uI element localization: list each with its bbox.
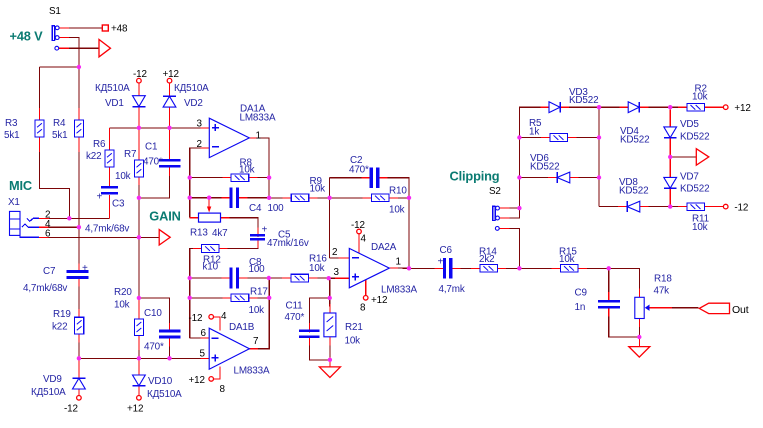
junction R9/R10/C2/DA2A pin2	[327, 196, 331, 200]
wire to arrow	[670, 156, 696, 158]
wire R8 to out column	[255, 177, 269, 179]
svg-text:MIC: MIC	[9, 178, 32, 193]
wire R14 to node	[504, 267, 520, 269]
diode VD3	[549, 87, 598, 113]
switch S1	[49, 6, 61, 50]
wire	[138, 357, 140, 359]
wire VD8 to right bus	[646, 206, 670, 208]
svg-text:C7: C7	[43, 266, 55, 277]
junction ground node	[328, 358, 332, 362]
wire R7 to C1 node	[138, 183, 140, 198]
junction R19/VD9/pin5 row	[77, 356, 81, 360]
svg-text:КД510А: КД510А	[95, 83, 130, 94]
resistor R6	[86, 139, 114, 167]
mic pin4 lead	[39, 226, 49, 228]
wire R3 to mic pin2	[40, 143, 70, 219]
connector arrow clipping out	[696, 149, 709, 166]
R8 left lead	[222, 177, 233, 179]
wire node to R15	[519, 267, 554, 269]
R2 right lead	[705, 106, 724, 108]
resistor R19	[52, 309, 84, 334]
wire mic pin4 row	[49, 226, 79, 228]
VD4 right lead	[637, 106, 648, 108]
R18 bottom lead	[638, 316, 640, 327]
VD10 bottom lead	[138, 386, 140, 395]
DA1A pin3 lead	[200, 127, 212, 129]
R5 left lead	[541, 137, 552, 139]
capacitor C11	[285, 301, 320, 339]
wire clip bus to VD6	[519, 177, 550, 179]
junction R15/C9/R18	[607, 266, 611, 270]
DA2A pin8 lead	[365, 280, 367, 296]
ground (middle)	[319, 367, 340, 378]
svg-text:VD2: VD2	[184, 98, 203, 109]
svg-text:6: 6	[45, 229, 51, 240]
label Clipping	[450, 169, 500, 184]
svg-text:-12: -12	[64, 404, 78, 415]
C11 bottom lead	[309, 336, 311, 346]
svg-text:-12: -12	[189, 313, 203, 324]
capacitor C2	[349, 155, 379, 188]
svg-text:10k: 10k	[114, 300, 130, 311]
VD10 top lead	[138, 358, 140, 375]
pin 3 label (DA2A)	[334, 267, 340, 278]
R17 left lead	[222, 297, 233, 299]
capacitor C5	[250, 225, 309, 250]
R20 bottom lead	[138, 336, 140, 350]
VD2 top lead	[169, 83, 171, 96]
VD6 right lead	[567, 177, 578, 179]
junction bus B / R17	[188, 296, 192, 300]
svg-text:1k: 1k	[529, 127, 539, 138]
diode VD8	[619, 177, 648, 212]
wire S2 pin3 down	[509, 228, 519, 268]
svg-text:2k2: 2k2	[479, 254, 494, 265]
C7 bottom lead	[78, 276, 80, 286]
wire out to C6	[409, 267, 437, 269]
wire node to R10	[330, 197, 366, 199]
R7 top lead	[138, 128, 140, 160]
wire to C11	[310, 298, 330, 326]
junction pin2/R3	[67, 216, 71, 220]
svg-text:2: 2	[332, 247, 337, 258]
wire clip bus to R5	[519, 137, 543, 139]
wire C5 to R12	[225, 246, 258, 249]
ground (output)	[629, 347, 650, 358]
terminal +12 (DA1B pin8)	[189, 375, 226, 395]
R12 right lead	[217, 248, 228, 250]
wire to R16	[269, 277, 285, 279]
resistor R16	[291, 254, 327, 282]
C8 left lead	[221, 277, 232, 279]
junction mid bus top	[597, 105, 601, 109]
svg-text:KD522: KD522	[620, 135, 649, 146]
C3 bottom lead	[108, 195, 110, 219]
R3 top lead	[39, 108, 41, 120]
svg-text:k22: k22	[86, 151, 101, 162]
svg-text:10k: 10k	[389, 204, 405, 215]
svg-text:5: 5	[200, 348, 206, 359]
pin 1 label	[256, 130, 262, 141]
feedback bus A	[190, 148, 203, 218]
svg-text:6: 6	[201, 328, 207, 339]
diode VD1	[95, 83, 145, 109]
wire bus B to R17	[190, 297, 225, 299]
wire DA2A output column	[408, 198, 410, 268]
wire bus A to C4	[190, 197, 224, 199]
svg-text:10k: 10k	[239, 164, 255, 175]
wire pin5 row	[79, 357, 203, 359]
C2 left lead	[361, 177, 372, 179]
resistor R4	[52, 118, 83, 141]
wire R10 to out column	[395, 197, 409, 199]
svg-text:LM833A: LM833A	[381, 285, 417, 296]
junction common column / C10 branch	[137, 296, 141, 300]
wire node to C2	[330, 177, 364, 179]
S2 pin1 lead	[500, 207, 510, 209]
X1 pin 4 contact	[22, 219, 51, 230]
R16 right lead	[306, 277, 317, 279]
junction R14/R15/S2	[517, 266, 521, 270]
R15 right lead	[575, 267, 587, 269]
terminal +48	[102, 24, 128, 35]
junction VD5/VD7/arrow	[668, 155, 672, 159]
junction out column / C4 / R9	[267, 196, 271, 200]
wire node to R18	[609, 268, 640, 291]
svg-text:5k1: 5k1	[52, 130, 68, 141]
wire S2 pin1	[509, 207, 519, 209]
junction common column / mic pin6 row	[137, 235, 141, 239]
VD1 bottom lead	[138, 107, 140, 128]
R15 left lead	[552, 267, 563, 269]
wire	[329, 277, 335, 279]
DA2A pin4 lead	[358, 234, 360, 253]
wire R19 to pin5 row	[78, 340, 80, 358]
svg-text:1: 1	[396, 257, 402, 268]
wire down to R3	[39, 67, 41, 115]
svg-text:+12: +12	[734, 103, 750, 114]
R21 bottom lead	[329, 334, 331, 345]
svg-text:R13: R13	[190, 228, 208, 239]
svg-text:VD5: VD5	[680, 119, 699, 130]
VD2 bottom lead	[169, 107, 171, 128]
wire R17 to out column	[255, 297, 269, 299]
DA1B pin5 lead	[200, 357, 211, 359]
R14 left lead	[471, 267, 483, 269]
svg-text:KD522: KD522	[680, 132, 709, 143]
VD1 top lead	[138, 83, 140, 95]
capacitor C10	[144, 308, 180, 353]
C1 top lead	[169, 128, 171, 159]
VD6 left lead	[548, 177, 559, 179]
potentiometer R18	[635, 274, 673, 319]
R8 right lead	[246, 177, 258, 179]
svg-text:X1: X1	[8, 197, 20, 208]
svg-text:1n: 1n	[575, 302, 586, 313]
svg-text:Out: Out	[732, 304, 749, 316]
DA1A pin1 lead	[247, 137, 258, 139]
junction clip bus / R5	[517, 135, 521, 139]
svg-text:LM833A: LM833A	[240, 113, 276, 124]
terminal -12 (VD1)	[133, 69, 147, 83]
connector arrow GAIN	[159, 230, 170, 246]
R9 left lead	[282, 197, 294, 199]
svg-text:C11: C11	[286, 301, 304, 312]
wire to C10	[139, 298, 170, 326]
svg-text:47mk/16v: 47mk/16v	[267, 238, 309, 249]
svg-text:10k: 10k	[115, 171, 131, 182]
junction R20/VD10/pin5 row	[137, 356, 141, 360]
DA2A pin2 lead	[338, 257, 352, 259]
C10 bottom lead	[169, 336, 171, 347]
svg-text:470*: 470*	[285, 312, 305, 323]
R5 right lead	[565, 137, 576, 139]
svg-text:+: +	[97, 192, 103, 203]
svg-text:КД510А: КД510А	[31, 387, 66, 398]
diode VD7	[664, 172, 710, 195]
wire pin3 node down	[329, 278, 331, 298]
svg-text:k22: k22	[52, 322, 67, 333]
terminal -12 (VD9)	[64, 396, 81, 415]
R19 top lead	[78, 309, 80, 320]
op-amp DA2A	[349, 242, 417, 296]
svg-text:VD10: VD10	[148, 376, 173, 387]
junction bus A / R8	[188, 175, 192, 179]
resistor R5	[529, 118, 568, 141]
wire R21 to ground node	[329, 343, 331, 360]
svg-text:10k: 10k	[692, 222, 708, 233]
svg-text:C6: C6	[440, 245, 453, 256]
svg-text:+: +	[262, 225, 268, 236]
svg-text:+: +	[438, 257, 444, 268]
terminal -12 (R11)	[723, 203, 748, 214]
wire right bus to R2	[670, 106, 681, 108]
resistor R11	[687, 203, 710, 233]
svg-text:C4: C4	[249, 203, 262, 214]
pin 2 label	[197, 139, 202, 150]
R6 bottom lead	[108, 167, 110, 187]
C5 bottom lead	[257, 239, 259, 248]
R20 top lead	[138, 298, 140, 319]
resistor R3	[4, 118, 44, 141]
pin 5 label	[200, 348, 206, 359]
wire R16 to DA2A pin3	[315, 277, 329, 279]
svg-text:470*: 470*	[144, 342, 164, 353]
mic pin2 lead	[39, 217, 49, 219]
VD5 bottom lead	[669, 138, 671, 157]
terminal -12 (DA2A pin4)	[351, 220, 367, 245]
capacitor C1	[143, 142, 180, 168]
wire mid bus to VD8	[599, 206, 621, 208]
pin 7 label	[253, 336, 258, 347]
wire down to R4	[78, 67, 80, 115]
wire S1 pin2 lead	[59, 37, 69, 39]
R14 right lead	[495, 267, 506, 269]
svg-text:C3: C3	[112, 199, 125, 210]
svg-text:C1: C1	[145, 142, 158, 153]
svg-text:4,7mk: 4,7mk	[439, 284, 465, 295]
C11 top lead	[309, 323, 311, 333]
VD5 top lead	[669, 109, 671, 127]
wire R9 to node	[315, 197, 330, 199]
svg-text:3: 3	[197, 119, 203, 130]
R16 left lead	[282, 277, 294, 279]
svg-text:KD522: KD522	[530, 162, 559, 173]
wire to +48 terminal	[69, 27, 102, 29]
svg-text:470*: 470*	[143, 157, 163, 168]
C4 right lead	[236, 197, 248, 199]
DA1A pin2 lead	[200, 147, 212, 149]
svg-text:10k: 10k	[310, 184, 326, 195]
svg-text:S2: S2	[489, 186, 501, 197]
VD3 left lead	[541, 106, 552, 108]
svg-text:C10: C10	[144, 308, 162, 319]
wire rail to R3	[40, 66, 79, 68]
resistor R14	[479, 247, 497, 273]
svg-text:-12: -12	[734, 203, 748, 214]
svg-text:10k: 10k	[692, 92, 708, 103]
R18 wiper lead	[650, 307, 673, 309]
resistor R12	[202, 245, 221, 273]
connector arrow +48V in	[99, 39, 111, 57]
wire right bus to R11	[670, 206, 681, 208]
wire C1 to R7 node	[139, 174, 170, 198]
wire +48V rail down	[69, 38, 79, 67]
resistor R20	[114, 287, 143, 336]
svg-text:КД510А: КД510А	[174, 83, 209, 94]
wire	[330, 257, 341, 259]
svg-text:7: 7	[253, 336, 258, 347]
wire VD4 to right bus	[646, 106, 671, 108]
svg-text:R7: R7	[124, 149, 136, 160]
ground stem right	[638, 337, 640, 347]
svg-text:-12: -12	[351, 220, 365, 231]
op-amp DA1B	[209, 322, 270, 377]
diode VD5	[664, 119, 710, 143]
svg-text:+: +	[82, 263, 88, 274]
terminal -12 (DA1B pin4)	[189, 311, 228, 324]
wire C6 to R14	[458, 267, 474, 269]
junction mid bus / VD6	[597, 175, 601, 179]
svg-text:10k: 10k	[249, 305, 265, 316]
DA2A pin1 lead	[387, 267, 398, 269]
svg-text:4: 4	[361, 234, 367, 245]
pin 1 label (DA2A)	[396, 257, 402, 268]
resistor R8	[231, 158, 254, 182]
label +48 V	[10, 29, 44, 44]
svg-text:LM833A: LM833A	[234, 366, 270, 377]
feedback bus B	[190, 249, 196, 338]
terminal +12 (VD2)	[163, 69, 179, 83]
svg-text:R10: R10	[389, 186, 407, 197]
mid bus vertical	[598, 107, 600, 206]
capacitor C6	[438, 245, 465, 295]
wire bus B to pin6	[190, 337, 203, 339]
pin 6 label	[201, 328, 207, 339]
svg-text:+48 V: +48 V	[10, 29, 44, 44]
wire R13 to C5	[227, 218, 258, 231]
terminal +12 (VD10)	[127, 396, 143, 415]
connector X1 (MIC)	[8, 178, 32, 235]
wire to +48V source arrow	[69, 47, 99, 49]
wire R18 to ground node	[638, 325, 640, 338]
label C3 value	[85, 224, 129, 235]
svg-text:C9: C9	[575, 288, 588, 299]
svg-text:+48: +48	[111, 24, 128, 35]
svg-text:470*: 470*	[349, 165, 369, 176]
junction right bus top	[668, 105, 672, 109]
svg-text:R6: R6	[93, 139, 106, 150]
svg-text:DA1B: DA1B	[229, 322, 255, 333]
svg-text:k10: k10	[203, 262, 219, 273]
wire C9 to ground node	[609, 314, 640, 337]
svg-text:R3: R3	[5, 118, 18, 129]
clip bus up	[519, 107, 543, 208]
C6 left lead	[435, 267, 447, 269]
svg-text:+12: +12	[127, 404, 143, 415]
junction DA2A out	[407, 266, 411, 270]
junction S2 / clip bus	[517, 206, 521, 210]
wire S2 pin2 up	[509, 208, 519, 218]
pin 2 label (DA2A)	[332, 247, 337, 258]
svg-text:4,7mk/68v: 4,7mk/68v	[85, 224, 129, 235]
wire mic pin6 row	[49, 236, 160, 238]
VD9 bottom lead	[78, 386, 80, 397]
junction bus B / C8	[188, 276, 192, 280]
junction R10/C2/out column	[407, 196, 411, 200]
wire DA2A pin2 column	[329, 178, 331, 258]
R2 left lead	[678, 106, 689, 108]
junction mid bus / R5	[597, 135, 601, 139]
svg-text:2: 2	[197, 139, 202, 150]
terminal +12 (R2)	[723, 103, 750, 114]
svg-text:Clipping: Clipping	[450, 169, 500, 184]
svg-text:VD9: VD9	[43, 374, 62, 385]
svg-text:4: 4	[221, 311, 227, 322]
DA1B pin4 lead	[213, 317, 219, 331]
diode VD10	[133, 375, 183, 400]
VD7 bottom lead	[669, 188, 671, 206]
R4 bottom lead	[78, 137, 80, 152]
C2 right lead	[376, 177, 387, 179]
svg-text:KD522: KD522	[619, 186, 648, 197]
svg-text:47k: 47k	[654, 286, 670, 297]
R11 right lead	[705, 206, 724, 208]
svg-text:+12: +12	[371, 295, 387, 306]
DA1B pin8 lead	[213, 367, 219, 379]
switch S2	[489, 186, 501, 230]
wire DA1B output up	[255, 278, 269, 349]
resistor R10	[372, 186, 408, 216]
capacitor C7	[23, 263, 89, 294]
junction R18/C9/ground	[637, 335, 641, 339]
svg-text:R18: R18	[654, 274, 672, 285]
wire mic pin2 row	[49, 217, 109, 219]
R19 bottom lead	[78, 331, 80, 342]
C4 left lead	[221, 197, 232, 199]
wire DA2A out	[395, 267, 409, 269]
capacitor C3	[97, 186, 125, 210]
wire DA1A output down	[255, 138, 269, 198]
junction VD2/C1 on input row	[167, 126, 171, 130]
svg-text:3: 3	[334, 267, 340, 278]
R21 top lead	[329, 304, 331, 316]
wire common column down	[138, 198, 140, 358]
junction R7/C1 node	[137, 196, 141, 200]
R17 right lead	[246, 297, 258, 299]
C7 top lead	[78, 263, 80, 273]
svg-text:KD522: KD522	[680, 184, 709, 195]
